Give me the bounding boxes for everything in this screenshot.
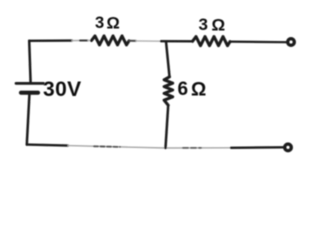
resistor R1 3ohm zigzag: [92, 36, 130, 45]
wire top-middle segment: [161, 40, 193, 42]
wire bottom-right solid segment: [231, 146, 283, 149]
wire bottom faded middle segment: [68, 146, 166, 148]
wire left vertical lower: [27, 95, 30, 145]
wire top-right segment: [230, 40, 286, 43]
wire left vertical upper: [29, 41, 30, 83]
resistor R3 6ohm vertical zigzag: [164, 77, 173, 105]
svg-text:6: 6: [178, 79, 189, 100]
wire bottom faded right segment: [166, 147, 232, 149]
node junction top middle: [166, 41, 170, 76]
svg-text:30V: 30V: [43, 78, 82, 101]
terminal B open circle: [285, 144, 292, 151]
svg-text:3: 3: [95, 14, 104, 32]
wire bottom darker dash right: [183, 147, 201, 149]
battery V1 negative plate: [21, 91, 38, 95]
svg-text:Ω: Ω: [212, 16, 226, 35]
wire top-left faded part: [72, 40, 80, 42]
resistor R2 3ohm zigzag: [193, 37, 231, 46]
wire top-left dash part: [80, 40, 88, 42]
wire top-middle faded part: [136, 40, 161, 42]
terminal A open circle: [288, 39, 295, 46]
wire bottom-left solid segment: [27, 145, 68, 146]
svg-text:Ω: Ω: [107, 15, 120, 33]
wire out of R1 dash: [129, 40, 136, 42]
wire middle vertical lower: [166, 105, 169, 148]
wire lead into R1: [88, 40, 92, 42]
wire top-left segment: [29, 39, 72, 42]
svg-text:Ω: Ω: [191, 80, 206, 101]
wire bottom darker dotted patch: [94, 145, 120, 148]
svg-text:3: 3: [199, 15, 208, 34]
battery V1 positive plate: [16, 82, 44, 85]
